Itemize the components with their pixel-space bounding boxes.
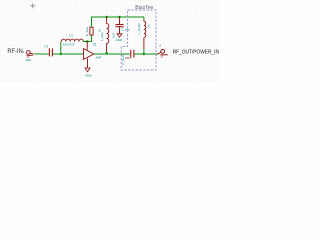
wire C3 to node F and port: [135, 53, 159, 55]
wire C1 to node A: [53, 53, 61, 55]
node B junction: [86, 40, 88, 42]
wire rail into bias tee inductor: [143, 17, 145, 20]
svg-text:BiasTee: BiasTee: [135, 5, 153, 11]
wire node A up to L1: [60, 42, 62, 55]
capacitor C1 (input DC block): [49, 48, 52, 56]
wire L3 to output line: [143, 49, 145, 54]
svg-text:L1: L1: [69, 33, 73, 37]
node D junction (choke to output line): [105, 52, 108, 55]
svg-text:L_bias: L_bias: [100, 32, 104, 41]
svg-text:SMA: SMA: [26, 58, 32, 62]
inductor L2 (choke) top lead: [106, 17, 108, 24]
svg-text:INDUCTOR: INDUCTOR: [63, 43, 75, 47]
svg-text:RF-IN: RF-IN: [7, 49, 22, 55]
inductor L2 (choke): [107, 24, 109, 44]
capacitor C3 (bias tee DC block): [131, 50, 134, 58]
connector J2 (RF output port): [158, 49, 168, 54]
wire amp output to C3: [94, 53, 130, 55]
wire node A to amp input: [61, 53, 84, 55]
riser wire R1 to top rail: [92, 17, 145, 27]
inductor L1 (series matching): [61, 39, 83, 41]
BiasTee dashed group box: [121, 10, 156, 70]
svg-text:100n: 100n: [125, 56, 131, 60]
crosshair cursor: [30, 3, 35, 8]
amp ground pin: [87, 58, 89, 68]
svg-text:GND: GND: [115, 38, 123, 42]
amp U1 power pin from node B: [86, 42, 88, 50]
svg-text:C1: C1: [44, 45, 48, 49]
svg-text:L_choke: L_choke: [137, 23, 141, 35]
svg-text:R_bias: R_bias: [85, 26, 89, 36]
ground (C2): [117, 34, 122, 37]
svg-text:GND: GND: [85, 73, 91, 77]
L3 bottom lead: [143, 37, 145, 49]
ground (amp): [85, 68, 90, 72]
connector J1 (RF input port): [27, 51, 34, 56]
inductor L3 (bias tee) top lead: [143, 20, 145, 21]
svg-text:1u: 1u: [147, 24, 151, 28]
resistor R1 (bias): [90, 27, 93, 35]
C2 bottom lead: [119, 27, 121, 34]
capacitor C2 plates: [115, 25, 123, 27]
node F junction: [143, 53, 145, 55]
node E junction (decoupling tap on rail): [118, 16, 120, 18]
riser wire node B to R1: [91, 35, 93, 42]
svg-text:AMP: AMP: [96, 55, 102, 59]
inductor L3 (bias tee): [144, 21, 146, 37]
svg-text:U1: U1: [93, 42, 97, 46]
wire port to C1: [34, 53, 49, 55]
node C junction (choke tap on rail): [105, 16, 107, 18]
L2 bottom lead: [106, 43, 108, 53]
capacitor C2 (decoupling) top lead: [119, 17, 121, 24]
node A junction: [60, 53, 62, 55]
svg-text:C_dec: C_dec: [121, 28, 130, 32]
op-amp U1 (amplifier triangle): [84, 49, 94, 60]
wire L1 right end to node B: [83, 41, 92, 43]
svg-text:RF_OUT/POWER_IN: RF_OUT/POWER_IN: [173, 50, 219, 56]
